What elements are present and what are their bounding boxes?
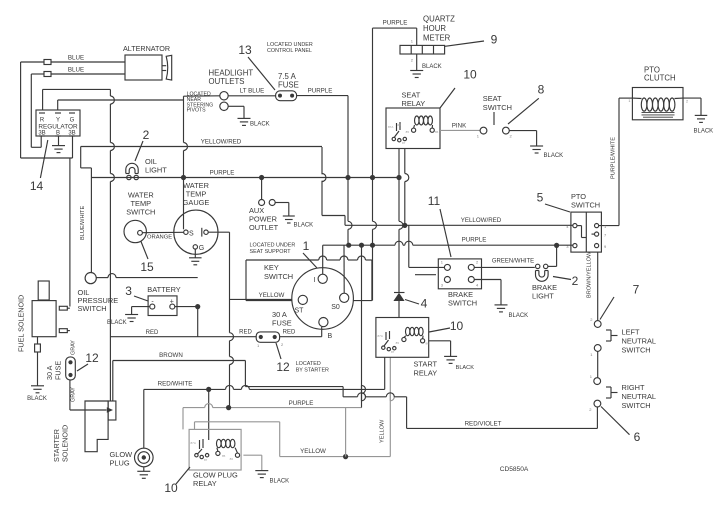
- svg-text:YELLOW/RED: YELLOW/RED: [201, 139, 242, 146]
- start relay coil: [396, 327, 430, 345]
- oil pressure switch label: [78, 288, 119, 313]
- fuel solenoid ground: [27, 386, 47, 402]
- wire seat relay pin30 down V1: [398, 149, 400, 178]
- svg-text:CD5850A: CD5850A: [500, 466, 529, 473]
- pto switch internals: [577, 212, 595, 252]
- glow plug relay contacts: [191, 439, 209, 462]
- svg-text:12: 12: [276, 360, 290, 374]
- svg-text:2: 2: [686, 100, 688, 104]
- right neutral switch lever / label 6: [601, 407, 641, 445]
- hour meter ground: [410, 64, 441, 78]
- svg-text:1: 1: [303, 239, 310, 253]
- svg-text:METER: METER: [423, 34, 451, 43]
- battery terminal minus: [150, 304, 155, 309]
- battery box: [148, 296, 177, 316]
- svg-text:87: 87: [204, 458, 208, 462]
- left neutral switch contact 1: [590, 345, 601, 357]
- pto switch pin 1: [595, 224, 608, 230]
- wire start relay 86 to ground: [429, 341, 451, 357]
- note located by starter: [296, 361, 329, 374]
- svg-text:BLACK: BLACK: [270, 479, 290, 485]
- svg-text:FUSE: FUSE: [278, 81, 299, 90]
- svg-text:RED: RED: [146, 330, 159, 336]
- fuel solenoid tab 1: [59, 306, 70, 310]
- label 10 glow plug relay: [164, 467, 190, 495]
- wire glow relay feed: [208, 389, 210, 440]
- label 12 left: [77, 351, 99, 371]
- key terminal I: [314, 274, 328, 284]
- right neutral switch contact 2: [589, 400, 601, 412]
- wire PURPLE bottom: [183, 400, 362, 408]
- wire RED/VIOLET: [407, 407, 598, 428]
- wire PURPLE/WHITE pto clutch to pto switch pin1: [599, 98, 632, 226]
- junction purple - gauge S: [181, 175, 186, 180]
- wire purple to aux outlet: [261, 178, 263, 200]
- wire BLUE 1: [51, 55, 125, 63]
- regulator ground: [52, 136, 65, 153]
- wire bus to key S0: [343, 245, 345, 293]
- gauge terminal S: [184, 230, 194, 238]
- svg-text:7: 7: [633, 283, 640, 297]
- junction purple - trunk A: [345, 175, 350, 180]
- svg-text:SWITCH: SWITCH: [483, 103, 512, 112]
- glow plug: [135, 448, 154, 467]
- quartz hour meter: [400, 15, 455, 55]
- svg-text:B: B: [328, 333, 333, 340]
- label 1: [303, 239, 317, 268]
- svg-text:87: 87: [391, 350, 395, 354]
- regulator terminals R Y G: [39, 113, 75, 124]
- wire BLUE/WHITE oil pressure switch: [80, 168, 91, 272]
- start relay label: [414, 360, 438, 378]
- svg-text:PLUG: PLUG: [110, 459, 130, 468]
- pto clutch coil: [628, 98, 688, 117]
- svg-text:SEAT: SEAT: [483, 94, 502, 103]
- svg-text:BLACK: BLACK: [27, 396, 47, 402]
- svg-text:PURPLE/WHITE: PURPLE/WHITE: [611, 137, 617, 179]
- seat switch ground: [530, 146, 563, 159]
- brake switch pin 3: [441, 277, 451, 288]
- connector on blue wire 2: [44, 72, 51, 77]
- seat relay coil: [406, 116, 439, 134]
- oil light label: [145, 157, 167, 175]
- headlight outlets label: [209, 69, 254, 87]
- key switch box: [246, 256, 372, 301]
- brake light label: [532, 283, 557, 301]
- svg-text:KEY: KEY: [264, 263, 279, 272]
- svg-text:87A: 87A: [388, 125, 393, 129]
- svg-text:BLUE/WHITE: BLUE/WHITE: [80, 206, 86, 240]
- brake light lamp: [536, 271, 549, 282]
- label 14: [30, 140, 48, 193]
- wire RED: [110, 330, 256, 337]
- svg-text:YELLOW: YELLOW: [380, 419, 386, 443]
- wire regulator Y to headlight outlets: [58, 96, 220, 110]
- svg-text:LOCATED UNDER: LOCATED UNDER: [250, 243, 296, 249]
- svg-text:BLACK: BLACK: [694, 129, 714, 135]
- svg-text:SWITCH: SWITCH: [448, 299, 477, 308]
- seat switch contact 1: [477, 127, 487, 138]
- water temp switch terminal: [138, 230, 143, 235]
- wire gray to starter solenoid terminal: [70, 407, 113, 412]
- hour meter pin 1: [411, 28, 417, 45]
- note located under control panel: [267, 42, 313, 54]
- gauge terminal right: [202, 228, 208, 237]
- brake switch pin 2: [468, 260, 479, 271]
- glow plug relay label: [193, 471, 238, 489]
- svg-text:GAUGE: GAUGE: [183, 198, 210, 207]
- wire outlet2 to ground: [228, 106, 244, 118]
- wire purple bus: [323, 241, 573, 245]
- glow plug label: [110, 450, 133, 468]
- trunk B vertical purple hour meter: [373, 178, 377, 246]
- left neutral switch lever: [600, 297, 614, 320]
- left neutral switch bracket: [606, 330, 618, 341]
- svg-text:OUTLET: OUTLET: [249, 223, 279, 232]
- svg-text:PINK: PINK: [452, 123, 467, 130]
- wire purple bottom left drop: [182, 408, 184, 430]
- svg-text:RELAY: RELAY: [193, 479, 217, 488]
- svg-text:87A: 87A: [191, 441, 196, 445]
- svg-text:SOLENOID: SOLENOID: [61, 425, 70, 462]
- svg-text:ST: ST: [295, 308, 305, 315]
- junction yellow: [343, 454, 348, 459]
- key terminal S0: [331, 293, 349, 311]
- oil light lamp: [126, 163, 138, 173]
- start relay contacts: [378, 331, 396, 354]
- svg-text:OUTLETS: OUTLETS: [209, 77, 245, 86]
- svg-text:CONTROL PANEL: CONTROL PANEL: [267, 48, 312, 54]
- key terminal B: [319, 318, 333, 341]
- start relay box: [376, 318, 429, 358]
- svg-text:86: 86: [435, 130, 439, 134]
- svg-text:QUARTZ: QUARTZ: [423, 15, 455, 24]
- gauge ground: [189, 249, 202, 265]
- svg-text:LIGHT: LIGHT: [145, 166, 167, 175]
- svg-text:FUSE: FUSE: [272, 319, 292, 328]
- pto switch box: [571, 212, 602, 252]
- label 10 seat relay: [440, 68, 477, 109]
- wire GRAY upper: [71, 340, 77, 355]
- aux outlet socket 2: [269, 200, 275, 206]
- brake switch pin 4: [468, 277, 479, 288]
- label 3: [125, 284, 148, 301]
- brake switch pin 1: [441, 260, 451, 271]
- svg-text:SWITCH: SWITCH: [571, 201, 600, 210]
- svg-text:85: 85: [396, 341, 400, 345]
- wire glow relay to ground: [243, 455, 261, 470]
- aux outlet socket 1: [259, 200, 265, 206]
- svg-text:87A: 87A: [378, 334, 383, 338]
- left neutral switch contact 2: [590, 317, 601, 327]
- wire fuel solenoid feed vertical: [69, 158, 71, 307]
- svg-text:9: 9: [491, 33, 498, 47]
- junction bus purple riser: [359, 243, 364, 248]
- seat relay contacts: [388, 122, 406, 145]
- pto switch label: [571, 192, 600, 210]
- junction purple - trunk B: [370, 175, 375, 180]
- svg-text:S: S: [189, 231, 194, 238]
- svg-text:RED/WHITE: RED/WHITE: [158, 381, 193, 388]
- svg-text:BLUE: BLUE: [68, 55, 84, 62]
- note located under seat support: [250, 243, 296, 256]
- wire bus to key I: [322, 245, 324, 274]
- wire PURPLE from fuse to trunk A: [297, 87, 348, 95]
- svg-text:12: 12: [85, 351, 99, 365]
- wire battery trunk to red: [197, 307, 199, 337]
- water temp switch label: [126, 191, 155, 217]
- svg-text:85: 85: [406, 130, 410, 134]
- oil pressure switch sensor: [85, 273, 96, 284]
- junction purple - seat relay V1: [396, 175, 401, 180]
- svg-text:GRAY: GRAY: [71, 340, 77, 355]
- svg-text:SWITCH: SWITCH: [126, 208, 155, 217]
- wire yellow junction riser: [345, 408, 347, 457]
- svg-text:86: 86: [230, 457, 234, 461]
- svg-text:BROWN/YELLOW: BROWN/YELLOW: [587, 251, 593, 298]
- svg-text:YELLOW: YELLOW: [300, 448, 326, 455]
- vertical gauge-yellow line: [230, 232, 234, 407]
- label 13: [238, 43, 275, 90]
- wire purple riser: [362, 245, 366, 407]
- brake light terminals: [536, 264, 548, 268]
- right neutral switch bracket: [606, 387, 618, 398]
- svg-text:PIVOTS: PIVOTS: [187, 108, 207, 114]
- glow plug relay coil: [216, 439, 240, 461]
- svg-text:YELLOW/RED: YELLOW/RED: [461, 217, 502, 224]
- svg-text:GREEN/WHITE: GREEN/WHITE: [492, 259, 534, 265]
- svg-text:2: 2: [143, 128, 150, 142]
- svg-text:15: 15: [140, 260, 154, 274]
- wire YELLOW bottom: [280, 448, 391, 456]
- svg-text:2: 2: [572, 274, 579, 288]
- junction purple bottom: [226, 405, 231, 410]
- wire fuel solenoid bottom: [37, 337, 39, 344]
- pto clutch box: [632, 88, 683, 120]
- svg-text:NEUTRAL: NEUTRAL: [622, 392, 657, 401]
- trunk A vertical purple: [348, 96, 352, 246]
- label 10 start relay: [429, 319, 463, 333]
- pto clutch ground: [694, 115, 714, 134]
- svg-text:BLACK: BLACK: [294, 223, 314, 229]
- svg-text:YELLOW: YELLOW: [259, 292, 285, 299]
- junction purple - aux outlet: [259, 175, 264, 180]
- svg-text:BLACK: BLACK: [250, 122, 270, 128]
- wire yellowred to brake switch pin1: [409, 225, 445, 267]
- svg-text:START: START: [414, 360, 438, 369]
- diode D4: [393, 293, 404, 302]
- label 2 oil light: [135, 128, 150, 161]
- junction battery plus trunk: [195, 304, 200, 309]
- svg-text:1: 1: [628, 99, 630, 103]
- wire to fuel solenoid ground: [37, 352, 39, 386]
- wire PURPLE to hour meter: [373, 20, 417, 178]
- right neutral switch label: [622, 383, 657, 410]
- seat relay label: [402, 91, 426, 109]
- junction purple brake light: [554, 243, 559, 248]
- svg-text:G: G: [199, 245, 204, 252]
- svg-text:11: 11: [428, 194, 441, 208]
- regulator U14 box: [36, 110, 80, 136]
- headlight outlet socket 2: [220, 102, 228, 110]
- svg-text:SWITCH: SWITCH: [78, 304, 107, 313]
- wire oil pressure to battery trunk: [96, 274, 197, 278]
- svg-text:REGULATOR: REGULATOR: [38, 124, 78, 131]
- fuel solenoid label: [16, 295, 25, 352]
- svg-text:CLUTCH: CLUTCH: [644, 74, 676, 83]
- headlight outlet socket 1: [220, 92, 228, 100]
- drawing number: [500, 466, 529, 473]
- svg-text:RELAY: RELAY: [402, 99, 426, 108]
- key terminal ST: [295, 295, 308, 314]
- wire BROWN/YELLOW: [587, 251, 598, 320]
- 30A fuse label center: [272, 310, 292, 328]
- svg-text:4: 4: [421, 297, 428, 311]
- aux outlet ground: [283, 216, 313, 229]
- wire gauge S drop: [184, 100, 188, 229]
- seat switch label: [483, 94, 512, 125]
- starter solenoid terminal box: [108, 401, 116, 420]
- svg-text:14: 14: [30, 179, 44, 193]
- svg-text:NEUTRAL: NEUTRAL: [622, 337, 657, 346]
- fuse 30A center: [256, 332, 284, 348]
- svg-text:BLACK: BLACK: [422, 64, 442, 70]
- fuel solenoid body: [32, 301, 56, 337]
- svg-text:I: I: [314, 277, 316, 284]
- wire RED/WHITE: [144, 381, 385, 390]
- brake switch ground: [495, 305, 529, 319]
- svg-text:PURPLE: PURPLE: [308, 87, 333, 94]
- svg-text:8: 8: [538, 83, 545, 97]
- junction yellowred seat relay V2: [402, 223, 407, 228]
- oil light terminals: [127, 175, 139, 179]
- svg-text:PURPLE: PURPLE: [383, 20, 408, 27]
- wire R-line down to starter solenoid: [110, 89, 114, 401]
- svg-text:SWITCH: SWITCH: [264, 272, 293, 281]
- svg-text:LT BLUE: LT BLUE: [240, 87, 265, 94]
- brake switch box: [438, 259, 481, 289]
- svg-text:PURPLE: PURPLE: [210, 170, 235, 177]
- label 12 center: [276, 343, 290, 374]
- pto switch pin 7: [595, 232, 608, 238]
- svg-text:BY STARTER: BY STARTER: [296, 368, 329, 374]
- inline connector fuel solenoid: [35, 344, 41, 352]
- svg-text:LEFT: LEFT: [622, 328, 641, 337]
- gauge terminal G: [193, 245, 204, 252]
- svg-text:LOCATED: LOCATED: [296, 361, 321, 367]
- svg-text:30: 30: [397, 123, 401, 127]
- wire battery plus to trunk: [175, 306, 198, 308]
- junction redwhite glow relay feed: [206, 387, 211, 392]
- svg-text:LIGHT: LIGHT: [532, 292, 554, 301]
- glow plug relay box: [189, 429, 241, 470]
- svg-text:RED: RED: [239, 330, 252, 336]
- right neutral switch contact 1: [590, 374, 601, 385]
- starter solenoid body: [85, 401, 108, 452]
- svg-text:BLUE: BLUE: [68, 67, 84, 74]
- svg-text:SWITCH: SWITCH: [622, 346, 651, 355]
- fuel solenoid tab 2: [59, 329, 70, 333]
- brake switch label: [448, 290, 477, 308]
- wire YELLOW left loop: [195, 422, 280, 457]
- svg-text:RIGHT: RIGHT: [622, 383, 645, 392]
- svg-text:BATTERY: BATTERY: [147, 285, 180, 294]
- wire regulator R: [43, 89, 111, 110]
- junction bus trunk A: [346, 243, 351, 248]
- svg-text:BROWN: BROWN: [159, 352, 183, 359]
- water temp switch body: [124, 220, 146, 242]
- headlight outlets ground: [238, 118, 270, 127]
- fuel solenoid top: [38, 281, 49, 300]
- wire YELLOW/RED right: [322, 147, 573, 225]
- pto switch pin 3: [566, 244, 577, 250]
- pto clutch label: [644, 66, 676, 83]
- svg-text:10: 10: [450, 319, 464, 333]
- regulator label: [38, 124, 78, 131]
- svg-text:RED/VIOLET: RED/VIOLET: [465, 421, 502, 428]
- start relay ground: [444, 356, 474, 371]
- wire pto clutch right to ground: [683, 98, 701, 115]
- label 11: [428, 194, 451, 257]
- key switch body: [292, 268, 354, 330]
- svg-text:BLACK: BLACK: [544, 153, 564, 159]
- wire YELLOW/RED left: [81, 139, 322, 168]
- wire blue1 to regulator right 3B: [21, 62, 73, 158]
- wire RED fuse to key B: [280, 330, 322, 337]
- svg-text:HOUR: HOUR: [423, 24, 446, 33]
- wire start relay pin to redwhite: [384, 357, 386, 389]
- svg-text:RED: RED: [283, 330, 296, 336]
- wire V1 to diode and start relay: [399, 178, 403, 318]
- svg-text:BLACK: BLACK: [107, 320, 127, 326]
- aux power outlet label: [249, 206, 279, 232]
- junction yellow ST wire: [230, 298, 298, 300]
- wire BROWN: [113, 352, 246, 361]
- wire PINK: [440, 123, 480, 131]
- wire GREEN/WHITE: [474, 259, 535, 268]
- svg-text:10: 10: [164, 481, 178, 495]
- wire YELLOW key switch: [259, 292, 285, 299]
- wire ORANGE: [142, 232, 183, 240]
- svg-text:6: 6: [634, 430, 641, 444]
- seat switch contact 2: [503, 127, 513, 138]
- note located near steering pivots: [187, 92, 214, 114]
- svg-text:SWITCH: SWITCH: [622, 401, 651, 410]
- svg-text:PURPLE: PURPLE: [289, 400, 314, 407]
- label 7: [633, 283, 640, 297]
- svg-text:FUEL SOLENOID: FUEL SOLENOID: [16, 295, 25, 352]
- svg-text:3: 3: [125, 284, 132, 298]
- pto switch pin 9: [595, 244, 608, 250]
- junction bus trunk B: [370, 243, 375, 301]
- wire purple to brake light: [548, 245, 557, 266]
- wire brown drop to starter solenoid: [112, 361, 114, 402]
- battery ground: [107, 315, 138, 327]
- wire seat relay pin87 down V2: [405, 149, 409, 226]
- battery terminal plus: [170, 304, 175, 309]
- wire between neutral switches: [597, 351, 599, 377]
- label 15: [140, 242, 154, 275]
- svg-text:FUSE: FUSE: [54, 361, 63, 380]
- wire brake switch stub: [415, 274, 436, 276]
- key switch label: [264, 263, 293, 281]
- svg-text:85: 85: [222, 454, 226, 458]
- wire GRAY lower: [70, 380, 77, 410]
- svg-text:13: 13: [238, 43, 252, 57]
- glow relay ground: [255, 471, 289, 485]
- battery label: [147, 285, 180, 294]
- wire key B to fuse wire: [321, 327, 323, 337]
